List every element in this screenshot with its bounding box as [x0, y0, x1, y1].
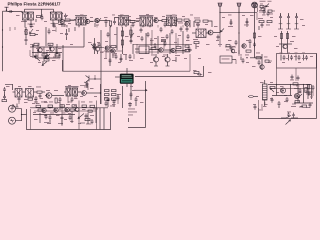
- AF transformer T8: [13, 89, 26, 98]
- TS1 knot extras: [58, 14, 68, 27]
- ferrite rod top right: [237, 3, 241, 54]
- mixer stage cluster: [64, 19, 74, 27]
- cluster above logo: [112, 54, 127, 62]
- resistor R7: [44, 59, 49, 61]
- resistor R9: [162, 20, 167, 28]
- bandswitch cluster: [194, 18, 212, 28]
- feedback arrow: [78, 114, 84, 119]
- thermistor mark: [248, 96, 258, 98]
- wire x122 vertical: [122, 86, 124, 108]
- logo wires: [115, 68, 127, 87]
- IF caps trio: [279, 13, 299, 24]
- rectifier cluster wires: [268, 85, 313, 104]
- dense micro blobs: [32, 20, 298, 112]
- wire: top link over T1 T2: [25, 9, 54, 16]
- resistor R5: [42, 54, 47, 56]
- capacitor C12: [86, 81, 89, 88]
- wire: mixer drop: [45, 27, 47, 46]
- output box internals: [280, 53, 309, 61]
- AF transformer T9: [26, 89, 38, 98]
- driver transformer T10: [64, 87, 81, 96]
- transistor TS12: [280, 88, 285, 93]
- resistor R15: [112, 94, 117, 96]
- band extra verticals 2: [147, 29, 191, 54]
- jack socket J1: [9, 105, 16, 112]
- top chain link wire: [64, 20, 177, 23]
- wire out right: [99, 108, 101, 130]
- resistor R13: [112, 90, 117, 92]
- transistor TS7: [208, 30, 220, 35]
- output stage vertical x104: [103, 108, 105, 130]
- power box bottom: [253, 104, 317, 119]
- caps stack left: [2, 87, 7, 102]
- caps trio bottoms: [278, 24, 299, 29]
- on-off switch S1: [281, 112, 298, 125]
- resistor R14: [105, 94, 110, 96]
- transformer T5: [139, 16, 154, 27]
- antenna input: [5, 7, 9, 11]
- amplifier enclosure box: [27, 109, 111, 130]
- band long wires: [133, 45, 192, 53]
- capacitor C1: [8, 10, 13, 13]
- junction dots scatter: [2, 12, 304, 115]
- resistor R8: [110, 21, 112, 27]
- xtal area extra: [236, 58, 245, 64]
- electrolytic C20: [284, 97, 289, 102]
- transistor TS6: [95, 47, 99, 54]
- top chain ground ticks: [67, 25, 190, 28]
- below T10 parts: [66, 96, 77, 105]
- transformer T4: [118, 16, 129, 28]
- transformer T6: [166, 15, 177, 27]
- mid column extra rows: [105, 94, 119, 106]
- capacitor C3: [35, 54, 38, 59]
- IF transformer T2: [51, 12, 62, 27]
- wire: left border: [3, 11, 7, 71]
- capacitor C6: [65, 29, 68, 40]
- band verticals: [133, 31, 183, 54]
- wire stub y85: [80, 86, 88, 91]
- transistor TS15 bare: [84, 75, 101, 83]
- transistor TS8: [45, 93, 64, 99]
- resistor R6: [55, 54, 60, 56]
- label band above logo: [100, 50, 117, 58]
- output stage extra parts: [34, 107, 96, 124]
- IF transformer T1: [23, 12, 34, 28]
- driver cluster: [246, 53, 264, 71]
- wire x100 vertical: [100, 84, 102, 104]
- electrolytic C11: [61, 116, 64, 126]
- bias parts: [85, 109, 96, 124]
- wire right border: [316, 54, 318, 119]
- wire rail y76: [135, 66, 204, 77]
- vertical x110: [109, 54, 112, 66]
- wire x145 vertical: [128, 81, 146, 128]
- marks below output box: [290, 68, 300, 81]
- wire x276 stub: [276, 68, 278, 85]
- jack wires: [16, 109, 27, 121]
- caps row tops: [140, 27, 189, 33]
- mid band extra verticals: [137, 34, 190, 54]
- resistor R21: [293, 83, 298, 85]
- resistor R20: [270, 87, 275, 89]
- resistor R10: [93, 44, 95, 49]
- transistor TS13: [294, 93, 299, 98]
- tick cluster right mid: [238, 55, 249, 61]
- wire: cluster to bus: [63, 27, 84, 71]
- IF cluster knot: [41, 49, 56, 60]
- arrow trimmer: [217, 29, 225, 47]
- tuning gang cluster: [228, 18, 249, 27]
- cluster left of trimmers: [129, 54, 135, 61]
- jack socket J2: [9, 117, 16, 124]
- cluster 108-127 row2: [107, 27, 124, 54]
- transistor TS5: [154, 18, 162, 23]
- IF amp cluster wires: [30, 44, 63, 58]
- transistor TS10: [54, 108, 58, 113]
- capacitor C4: [58, 54, 61, 59]
- wire: input to T1: [7, 12, 23, 14]
- junction parts: [100, 92, 121, 100]
- resistor R1: [25, 27, 27, 38]
- svg-text:Philips Fiesta 22RN661/7: Philips Fiesta 22RN661/7: [8, 1, 62, 6]
- AGC cluster: [176, 19, 190, 27]
- IF cluster inner verticals: [30, 44, 56, 58]
- trimmer pair mid: [151, 54, 180, 66]
- wire rail y71: [63, 54, 191, 71]
- volume cluster left: [130, 27, 135, 44]
- left cluster extra: [10, 14, 58, 31]
- diode arrow D2: [34, 56, 40, 61]
- transistor TS1: [60, 14, 64, 27]
- row2 mid extra parts: [91, 42, 122, 53]
- transistor TS2: [38, 48, 42, 53]
- capacitor C5: [105, 19, 108, 27]
- output inner verticals: [62, 101, 97, 130]
- arrow at x140 y90: [134, 89, 147, 91]
- power cluster extra wires: [270, 85, 312, 108]
- xtal box: [220, 56, 236, 63]
- caps below logo: [128, 84, 138, 107]
- wire x258 up: [258, 100, 260, 108]
- mains transformer winding: [263, 80, 268, 106]
- transistor TS9: [42, 108, 46, 113]
- preamp parts2: [46, 90, 62, 110]
- transistor TS4: [85, 19, 93, 24]
- output resistors row: [36, 105, 98, 110]
- ferrite rod top left: [218, 3, 222, 33]
- audio lower parts left: [18, 96, 48, 104]
- resistor R22: [305, 88, 307, 93]
- output stage rail: [30, 108, 108, 115]
- label specks scatter: [6, 14, 313, 124]
- output transformer box: [277, 54, 317, 69]
- transistor TS3: [50, 47, 54, 52]
- diode D5: [270, 88, 274, 92]
- diode arrow D1: [30, 29, 34, 34]
- oscillator transformer T7: [192, 29, 209, 38]
- preamp parts: [36, 87, 45, 99]
- wire x254 vertical: [253, 3, 257, 58]
- ground arrow below IF cluster: [42, 61, 47, 66]
- logo stamp dark block: [120, 74, 134, 84]
- transistor TS14: [82, 91, 100, 96]
- AM osc cluster: [193, 39, 252, 54]
- resistor R0: [36, 16, 42, 23]
- resistor R4: [48, 43, 53, 45]
- labels right of box: [128, 109, 137, 123]
- transformer T3: [74, 16, 88, 28]
- tick marks top: [69, 27, 75, 32]
- right cluster row2: [258, 18, 272, 30]
- caps cluster below: [104, 97, 116, 107]
- power right knot: [306, 85, 315, 98]
- padder trimmer: [113, 18, 118, 25]
- left row2 extra ticks: [48, 27, 57, 34]
- band components: [135, 43, 192, 53]
- wire verticals mid: [95, 30, 102, 104]
- IF amp right verticals: [279, 31, 294, 54]
- resistor R2: [30, 34, 38, 36]
- oscillator cluster: [95, 18, 104, 27]
- wire chain1: [104, 19, 131, 22]
- detector cluster: [130, 21, 139, 28]
- wire top bus right: [220, 11, 257, 13]
- capacitor C2: [25, 38, 28, 46]
- ticks bottom left: [12, 104, 19, 108]
- resistor R3: [34, 43, 39, 45]
- resistor R11 on rail: [193, 70, 202, 76]
- top right corner extra: [256, 6, 269, 20]
- power cluster bottom parts: [278, 101, 312, 109]
- output labels row: [34, 102, 93, 103]
- box B1: [139, 46, 149, 54]
- wire corner top: [5, 84, 13, 90]
- resistor R12: [105, 90, 110, 92]
- driver extra: [264, 57, 272, 63]
- electrolytic C10: [47, 115, 52, 124]
- transistor TS11: [65, 108, 69, 113]
- cluster x165 row2: [161, 37, 167, 46]
- converter cluster top right: [252, 1, 275, 15]
